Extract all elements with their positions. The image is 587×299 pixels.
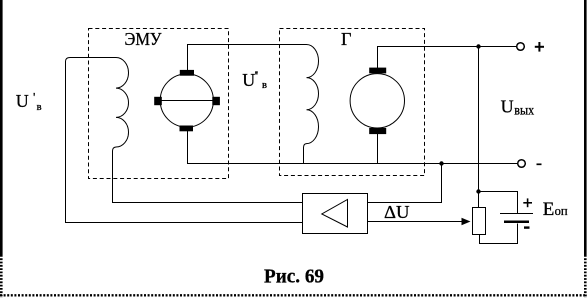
svg-text:оп: оп	[555, 204, 568, 218]
svg-text:в: в	[37, 102, 42, 113]
svg-text:U: U	[16, 91, 29, 111]
svg-text:Г: Г	[341, 29, 351, 49]
svg-text:': '	[33, 90, 35, 105]
svg-text:'': ''	[255, 68, 258, 83]
svg-text:в: в	[262, 80, 267, 91]
svg-text:U: U	[501, 96, 514, 116]
svg-text:E: E	[543, 199, 555, 220]
svg-text:Рис. 69: Рис. 69	[264, 266, 324, 288]
svg-text:вых: вых	[514, 103, 534, 118]
svg-text:U: U	[242, 70, 255, 90]
svg-text:ΔU: ΔU	[384, 202, 410, 222]
svg-text:ЭМУ: ЭМУ	[125, 29, 162, 49]
